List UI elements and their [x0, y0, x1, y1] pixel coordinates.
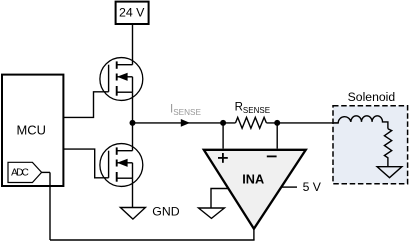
24V supply box [116, 2, 149, 24]
resistor R_SENSE [236, 117, 267, 128]
svg-text:ADC: ADC [11, 167, 29, 178]
wire INA output [253, 229, 255, 240]
current arrow [181, 119, 190, 127]
plus sign [218, 153, 228, 163]
node Rsense left dot [220, 120, 226, 126]
node Rsense right dot [274, 120, 280, 126]
inductor L1 [334, 116, 388, 129]
op-amp INA U1 [204, 150, 306, 229]
wire INA -input [276, 123, 278, 149]
wire Q1 source to node [132, 92, 134, 123]
svg-text:5 V: 5 V [303, 180, 322, 194]
minus sign [267, 155, 277, 157]
wire feedback up to ADC [49, 172, 51, 240]
transistor Q2 (low-side NMOS) [100, 144, 143, 187]
ground INA ref [199, 208, 225, 218]
wire Q2 source to ground [132, 178, 134, 207]
wire Q1 gate [63, 92, 108, 118]
resistor (solenoid winding) [384, 129, 391, 167]
ground solenoid [377, 167, 402, 178]
svg-text:Solenoid: Solenoid [348, 90, 395, 104]
svg-text:MCU: MCU [17, 122, 46, 137]
wire INA ref pin [211, 189, 229, 209]
svg-text:INA: INA [242, 172, 264, 186]
ground GND [120, 208, 145, 220]
wire INA 5V pin [281, 186, 297, 188]
node switch junction dot [130, 120, 136, 126]
wire INA +input [222, 123, 224, 149]
wire feedback bottom [50, 239, 255, 241]
wire 24V to Q1 drain [132, 24, 134, 65]
wire ADC stub [42, 171, 50, 173]
svg-text:24 V: 24 V [119, 5, 145, 19]
wire sense (node to Rsense) [133, 122, 236, 124]
Solenoid load box [333, 106, 408, 184]
svg-text:GND: GND [152, 205, 179, 219]
transistor Q1 (high-side NMOS) [100, 58, 143, 101]
wire Rsense to solenoid [266, 122, 338, 124]
ADC pin [8, 162, 42, 182]
wire Q2 gate [63, 149, 108, 178]
MCU box U2 [2, 75, 63, 186]
wire node to Q2 drain [132, 123, 134, 151]
